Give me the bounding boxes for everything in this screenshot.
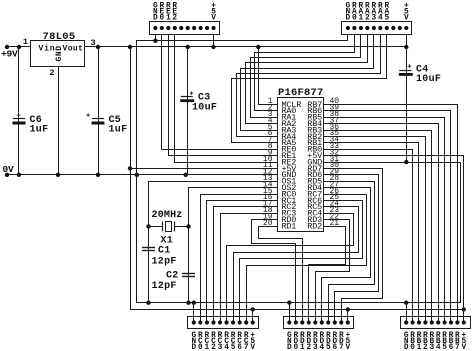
wire IC pin28 RD5 to RD header <box>324 182 375 323</box>
svg-text:V: V <box>461 344 466 351</box>
svg-text:2: 2 <box>365 15 370 23</box>
svg-text:2: 2 <box>49 68 54 78</box>
wire crystal right lead <box>175 226 189 228</box>
svg-text:2: 2 <box>172 15 177 23</box>
connector CON2 pin 10 <box>404 26 408 30</box>
connector CON2 pin 4 <box>365 26 369 30</box>
svg-text:V: V <box>404 15 409 23</box>
connector CON4 pin 5 <box>313 320 317 324</box>
wire crystal left lead <box>149 226 163 228</box>
svg-text:12pF: 12pF <box>152 281 177 292</box>
wire IC pin22 RD3 to RD header <box>316 220 350 323</box>
node reg pin2 on 0V <box>56 173 60 177</box>
wire CON1 gnd stub <box>155 35 157 41</box>
connector CON3 pin 2 <box>198 320 202 324</box>
wire IC pin26 RC7 to RC header <box>247 195 367 323</box>
svg-text:RD2: RD2 <box>307 221 322 231</box>
svg-text:+: + <box>17 112 21 120</box>
wire CON1 RE2 to IC pin10 <box>175 35 278 163</box>
svg-text:0V: 0V <box>3 164 15 175</box>
svg-text:0: 0 <box>160 15 165 23</box>
capacitor C5 wire <box>98 47 100 175</box>
svg-text:4: 4 <box>436 344 441 351</box>
connector CON1 pin 1 <box>153 26 157 30</box>
connector CON5 pin 2 <box>411 320 415 324</box>
svg-text:10uF: 10uF <box>192 103 217 114</box>
svg-text:V: V <box>211 15 216 23</box>
svg-text:D: D <box>191 344 196 351</box>
connector CON2 pin 8 <box>391 26 395 30</box>
node C1 gnd <box>146 301 150 305</box>
connector CON2 pin 5 <box>372 26 376 30</box>
svg-text:7: 7 <box>244 344 249 351</box>
svg-text:0: 0 <box>352 15 357 23</box>
connector CON1 pin 9 <box>205 26 209 30</box>
connector CON1 pin 5 <box>179 26 183 30</box>
wire IC pin18 RC3 to RC header <box>221 214 278 323</box>
connector CON3 pin 6 <box>224 320 228 324</box>
node RC header gnd <box>192 301 196 305</box>
wire RD header gnd stub <box>289 303 291 323</box>
connector CON4 pin 9 <box>339 320 343 324</box>
connector CON5 pin 4 <box>423 320 427 324</box>
connector CON4 pin 7 <box>326 320 330 324</box>
connector CON1 body <box>150 22 220 35</box>
svg-text:6: 6 <box>237 344 242 351</box>
connector CON2 pin 6 <box>378 26 382 30</box>
svg-text:3: 3 <box>313 344 318 351</box>
node +5V drop on rail <box>128 45 132 49</box>
connector CON3 body <box>188 317 259 329</box>
connector CON4 body <box>284 317 354 329</box>
node C4 gnd on pin31 wire <box>404 160 408 164</box>
wire CON2 RA4 to IC pin6 <box>237 35 381 137</box>
capacitor C3 wire <box>187 47 189 175</box>
wire +9V input rail <box>5 46 31 48</box>
wire IC pin20 RD1 to RD header <box>259 227 303 323</box>
svg-text:6: 6 <box>332 344 337 351</box>
svg-text:12pF: 12pF <box>152 257 177 268</box>
connector CON3 pin 10 <box>251 320 255 324</box>
node C5 on 0V <box>96 173 100 177</box>
svg-text:6: 6 <box>449 344 454 351</box>
wire CON1 RE1 to IC pin9 <box>169 35 278 156</box>
capacitor C6 wire <box>18 47 20 175</box>
wire IC pin16 RC1 to RC header <box>207 201 278 323</box>
capacitor C2 plates <box>182 273 195 275</box>
wire IC pin21 RD2 to RD header <box>309 227 346 323</box>
wire IC pin25 RC6 to RC header <box>240 201 363 323</box>
wire IC pin17 RC2 to RC header <box>214 207 278 323</box>
svg-text:5: 5 <box>442 344 447 351</box>
wire CON2 gnd stub <box>347 35 349 41</box>
svg-text:1: 1 <box>359 15 364 23</box>
svg-text:V: V <box>345 344 350 351</box>
svg-text:1: 1 <box>300 344 305 351</box>
svg-text:C2: C2 <box>166 271 179 282</box>
svg-text:10uF: 10uF <box>416 74 441 85</box>
node C6 tap <box>17 45 21 49</box>
svg-text:+: + <box>86 112 90 120</box>
connector CON1 pin 8 <box>199 26 203 30</box>
node C2 gnd <box>186 301 190 305</box>
connector CON2 body <box>342 22 412 35</box>
svg-text:1: 1 <box>23 37 28 47</box>
node RD header +5V <box>346 307 350 311</box>
connector CON4 pin 6 <box>320 320 324 324</box>
connector CON5 pin 10 <box>462 320 466 324</box>
wire IC pin27 RD4 to RD header <box>322 188 371 323</box>
wire IC pin 31 GND to right <box>324 162 460 164</box>
node RB header gnd <box>404 301 408 305</box>
connector CON4 pin 3 <box>300 320 304 324</box>
crystal X1 symbol <box>162 222 164 232</box>
wire CON2 RA0 to IC pin2 <box>255 35 355 111</box>
wire CON2 RA2 to IC pin4 <box>246 35 368 124</box>
node CON1 GND <box>153 39 157 43</box>
svg-text:D: D <box>153 15 158 23</box>
node C3 on rail <box>186 45 190 49</box>
node crystal right <box>186 224 190 228</box>
connector CON3 pin 7 <box>231 320 235 324</box>
node +5V to IC pin 11 <box>128 166 132 170</box>
connector CON5 pin 6 <box>436 320 440 324</box>
capacitor C3 plates <box>181 96 193 98</box>
connector CON4 pin 10 <box>346 320 350 324</box>
capacitor C1 plates <box>142 247 155 249</box>
svg-text:4: 4 <box>319 344 324 351</box>
wire RC header +5V stub <box>252 309 254 322</box>
svg-text:2: 2 <box>306 344 311 351</box>
svg-text:7: 7 <box>455 344 460 351</box>
svg-text:0: 0 <box>198 344 203 351</box>
wire IC pin34 RB1 to RB header <box>324 143 419 323</box>
connector CON5 pin 8 <box>449 320 453 324</box>
svg-text:7: 7 <box>339 344 344 351</box>
wire MCLR pin1 to +5V <box>259 47 278 105</box>
wire +5V vertical distribution <box>131 47 464 310</box>
connector CON2 pin 2 <box>352 26 356 30</box>
connector CON1 pin 6 <box>186 26 190 30</box>
svg-text:5: 5 <box>384 15 389 23</box>
wire CON2 RA1 to IC pin3 <box>251 35 361 118</box>
connector CON4 pin 8 <box>333 320 337 324</box>
node crystal left <box>146 224 150 228</box>
wire 78L05 pin2 to 0V <box>58 66 60 175</box>
connector CON5 pin 3 <box>417 320 421 324</box>
svg-text:+: + <box>407 63 411 71</box>
wire RD header +5V stub <box>347 309 349 322</box>
wire IC pin15 RC0 to RC header <box>201 195 278 323</box>
svg-text:V: V <box>250 344 255 351</box>
node C5 on +5V rail <box>96 45 100 49</box>
node RC header +5V <box>251 307 255 311</box>
wire IC pin39 RB6 to RB header <box>324 111 451 323</box>
svg-text:5: 5 <box>326 344 331 351</box>
IC U1 P16F877 body <box>278 98 324 232</box>
wire RC header gnd stub <box>193 303 195 323</box>
connector CON3 pin 1 <box>192 320 196 324</box>
svg-text:Vin: Vin <box>39 45 56 54</box>
connector CON5 pin 1 <box>404 320 408 324</box>
wire IC pin38 RB5 to RB header <box>324 118 445 323</box>
connector CON2 pin 3 <box>359 26 363 30</box>
connector CON4 pin 4 <box>307 320 311 324</box>
svg-text:1uF: 1uF <box>30 125 49 136</box>
node MCLR tie on rail <box>256 45 260 49</box>
svg-text:D: D <box>404 344 409 351</box>
wire IC pin 32 +5V to RB header pin10 <box>324 156 464 323</box>
connector CON5 pin 9 <box>455 320 459 324</box>
node C6 on 0V <box>17 173 21 177</box>
wire CON2 RA5 to IC pin7 <box>232 35 387 143</box>
node RB header +5V <box>462 307 466 311</box>
connector CON1 pin 3 <box>166 26 170 30</box>
wire IC pin36 RB3 to RB header <box>324 131 432 323</box>
capacitor C4 wire from CON2 pin10 through C4 to gnd <box>406 35 408 163</box>
connector CON1 pin 2 <box>160 26 164 30</box>
wire IC pin40 RB7 to RB header <box>324 105 458 323</box>
svg-text:1uF: 1uF <box>109 125 128 136</box>
svg-text:C1: C1 <box>158 246 171 257</box>
svg-text:0: 0 <box>410 344 415 351</box>
connector CON3 pin 3 <box>205 320 209 324</box>
wire IC pin14 OS2 to crystal right <box>189 188 278 303</box>
wire 0V rail to IC pin 12 <box>5 174 278 176</box>
svg-text:3: 3 <box>218 344 223 351</box>
svg-text:P16F877: P16F877 <box>278 87 324 99</box>
wire IC pin35 RB2 to RB header <box>324 137 426 323</box>
svg-text:+: + <box>189 91 193 99</box>
wire IC pin33 RB0 to RB header <box>324 150 413 323</box>
wire CON1 RE0 to IC pin8 <box>162 35 278 150</box>
wire IC pin 11 +5V <box>130 168 278 170</box>
svg-text:D: D <box>346 15 351 23</box>
connector CON4 pin 1 <box>287 320 291 324</box>
connector CON3 pin 8 <box>238 320 242 324</box>
capacitor C4 plates <box>399 70 411 72</box>
regulator U2 78L05 body <box>31 41 85 67</box>
wire IC pin30 RD7 to RD header <box>324 169 383 323</box>
connector CON2 pin 7 <box>385 26 389 30</box>
wire CON1 +5V stub <box>213 35 215 48</box>
svg-text:GND: GND <box>55 45 64 61</box>
wire IC pin13 OS1 to crystal left <box>149 182 278 303</box>
connector CON5 pin 5 <box>430 320 434 324</box>
svg-text:5: 5 <box>231 344 236 351</box>
connector CON1 pin 10 <box>211 26 215 30</box>
connector CON1 pin 7 <box>192 26 196 30</box>
wire IC pin24 RC5 to RC header <box>234 207 359 323</box>
capacitor C5 plates <box>92 118 104 120</box>
svg-text:1: 1 <box>205 344 210 351</box>
svg-text:+9V: +9V <box>1 49 18 60</box>
node CON1 +5V on rail <box>211 45 215 49</box>
wire CON2 RA3 to IC pin5 <box>241 35 374 131</box>
wire IC pin37 RB4 to RB header <box>324 124 439 323</box>
node C3 on 0V <box>184 173 188 177</box>
capacitor C6 plates <box>13 118 25 120</box>
svg-text:4: 4 <box>378 15 383 23</box>
wire RB header gnd stub <box>406 303 408 323</box>
wire +5V rail <box>85 46 406 48</box>
svg-text:RD1: RD1 <box>282 221 297 231</box>
connector CON2 pin 1 <box>346 26 350 30</box>
svg-text:2: 2 <box>423 344 428 351</box>
connector CON2 pin 9 <box>398 26 402 30</box>
svg-text:78L05: 78L05 <box>43 31 76 43</box>
svg-text:3: 3 <box>429 344 434 351</box>
wire GND top line and vertical <box>137 41 461 303</box>
node +9V input <box>5 45 9 49</box>
svg-text:1: 1 <box>417 344 422 351</box>
node gnd vertical on 0V <box>135 173 139 177</box>
connector CON5 body <box>401 317 471 329</box>
node 0V input <box>5 173 9 177</box>
wire IC pin19 RD0 to RD header <box>252 220 296 323</box>
svg-text:0: 0 <box>293 344 298 351</box>
svg-text:Vout: Vout <box>63 45 84 54</box>
connector CON3 pin 5 <box>218 320 222 324</box>
svg-text:3: 3 <box>372 15 377 23</box>
svg-text:2: 2 <box>211 344 216 351</box>
connector CON3 pin 9 <box>244 320 248 324</box>
wire IC pin29 RD6 to RD header <box>324 175 379 323</box>
svg-text:20MHz: 20MHz <box>152 210 183 221</box>
svg-text:1: 1 <box>166 15 171 23</box>
connector CON1 pin 4 <box>173 26 177 30</box>
svg-text:D: D <box>287 344 292 351</box>
connector CON4 pin 2 <box>294 320 298 324</box>
wire CON2 +5V stub <box>406 35 408 48</box>
connector CON3 pin 4 <box>211 320 215 324</box>
node RD header gnd <box>287 301 291 305</box>
node C4 / CON2 +5V on rail <box>404 45 408 49</box>
svg-text:4: 4 <box>224 344 229 351</box>
wire IC pin23 RC4 to RC header <box>227 214 354 323</box>
connector CON5 pin 7 <box>443 320 447 324</box>
